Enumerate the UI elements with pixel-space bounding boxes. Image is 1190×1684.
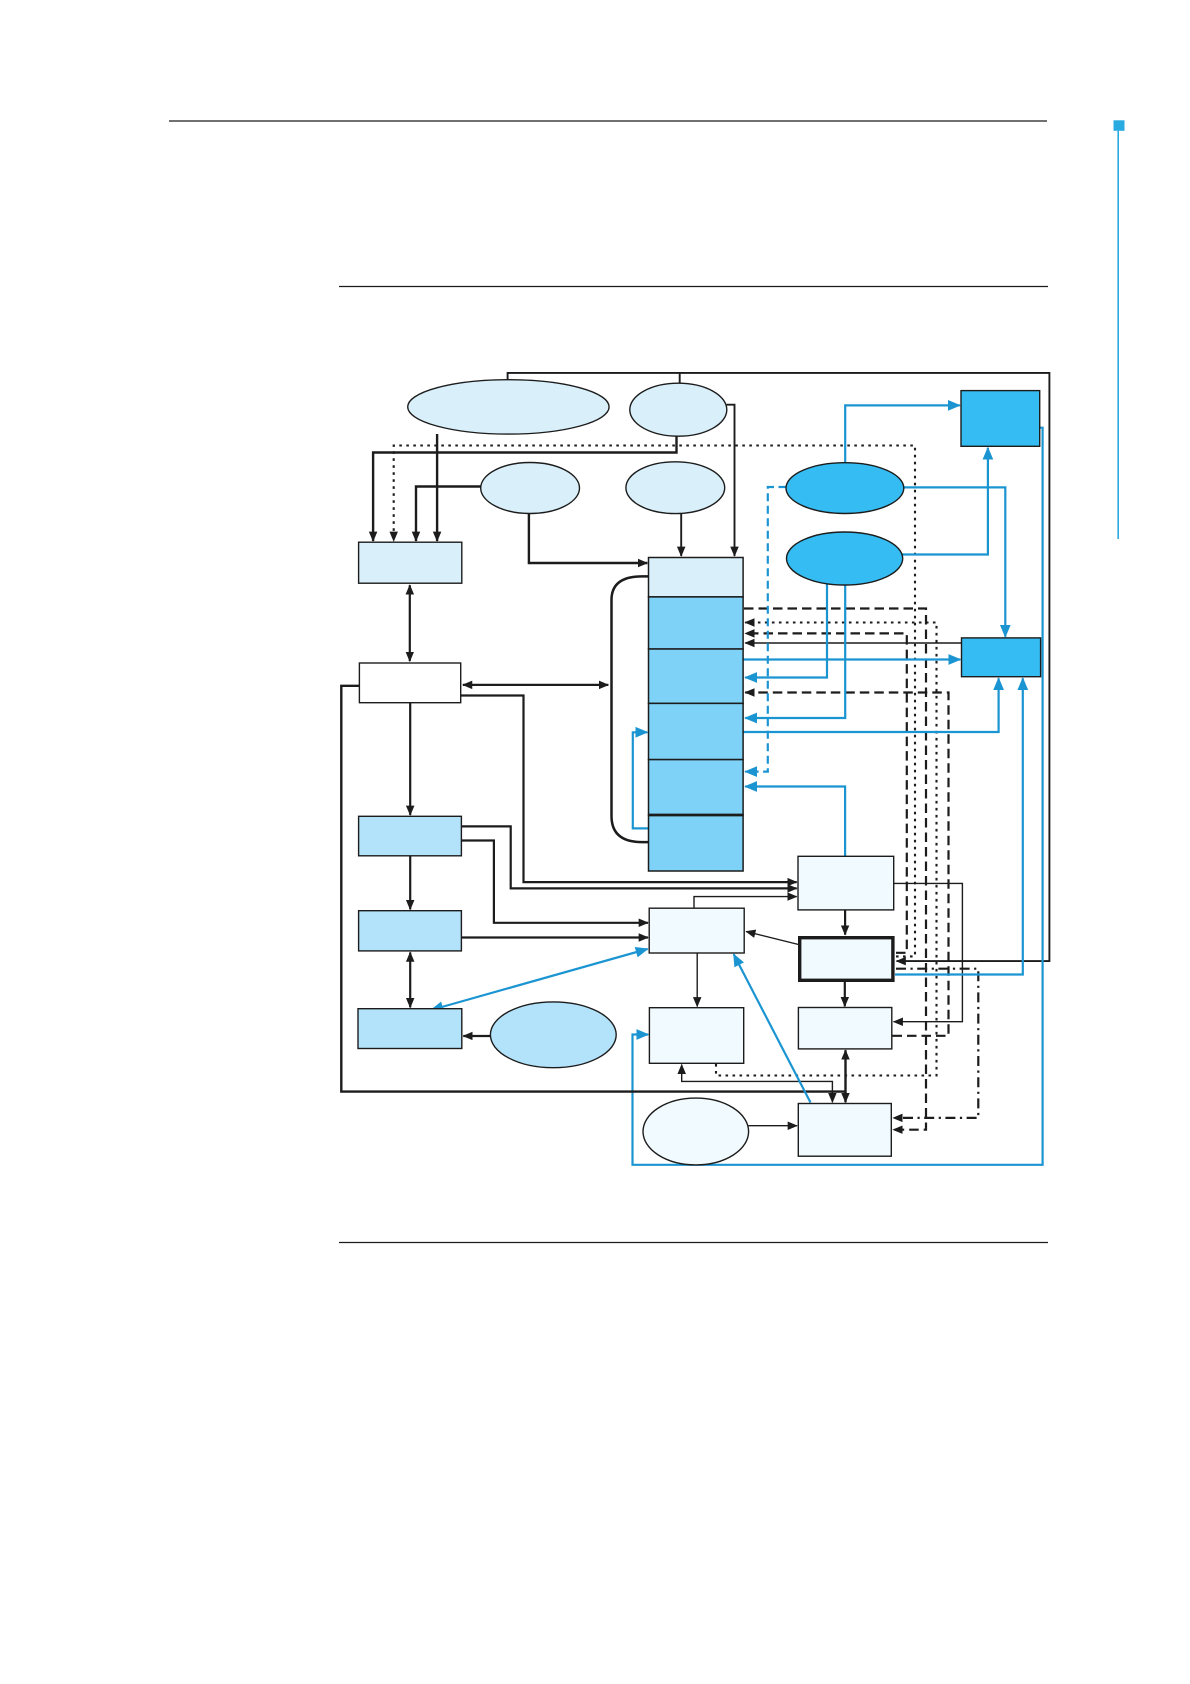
box R1: [798, 856, 894, 910]
wire: box R1 bottom to thick box T: [844, 910, 846, 935]
box B5: [358, 1009, 462, 1049]
wire: blue from column S4 to blue box BR2 bottom: [743, 678, 999, 732]
wire: box B3 right to box R1: [461, 826, 796, 888]
wire: blue from dark ellipse D1 right to blue box BR2 top: [903, 487, 1005, 636]
wire: box M bottom to box N: [696, 953, 698, 1006]
wire: ellipse E3 left to box B1: [416, 487, 481, 542]
ellipse E2: [630, 383, 727, 436]
wire: blue from column S3 to blue box BR2 left: [743, 658, 960, 660]
wire: stub border to ellipse E2 top: [679, 373, 681, 384]
wire: double arrow box B2 and recurrence curve: [463, 684, 608, 686]
wire: blue loop column S6 to column S4: [633, 732, 649, 828]
wire: ellipse E4 bottom to column top: [680, 513, 682, 556]
ellipse E5: [490, 1002, 616, 1068]
wire: outer border from ellipse E1/E2 tops to thick box T: [508, 373, 1050, 961]
wire: thin double link box N and box R3: [682, 1065, 833, 1103]
wire: solid thin from box R1 to box R2: [894, 883, 963, 1021]
wire: blue from box R1 top to column S5: [745, 787, 845, 857]
box B1: [359, 542, 462, 583]
wire: double arrow box R2 and box R3: [844, 1050, 846, 1102]
wire: blue dashed from dark ellipse D1 left to column S5: [745, 487, 786, 772]
central column stack: [649, 558, 744, 872]
wire: box B2 left long route to box R3 top: [341, 686, 845, 1092]
wire: double arrow box B4 and box B5: [409, 952, 411, 1007]
blue box BR2: [962, 638, 1041, 677]
blue corner square top right: [1114, 120, 1125, 131]
wire: dashed from box R2 to column S3: [745, 693, 948, 1036]
wire: ellipse E5 to box B5: [463, 1035, 491, 1037]
ellipse E4: [626, 462, 725, 514]
ellipse E3: [481, 463, 580, 514]
wire: box B2 right to box R1: [461, 696, 797, 883]
bottom rule: [339, 1242, 1048, 1244]
thick box T: [800, 938, 893, 981]
box M: [649, 908, 744, 953]
wire: blue from dark ellipse D1 top to blue box BR1: [845, 405, 960, 462]
wire: double arrow box B1 and box B2: [409, 585, 411, 661]
wire: thick box T corner to box M right: [746, 932, 798, 945]
blue box BR1: [961, 391, 1040, 447]
wire: ellipse E2 right to column top: [727, 405, 735, 556]
wire: dash-dot from thick box T to box R3: [893, 969, 978, 1118]
wire: blue from thick box T to blue box BR2 bottom: [895, 678, 1023, 974]
wire: solid from blue box BR2 left to column S2: [745, 642, 961, 644]
dark ellipse D2: [787, 532, 903, 585]
wire: ellipse E3 bottom to column S1 left: [529, 513, 647, 563]
wire: dotted from box N to column S2: [716, 623, 937, 1076]
wire: ellipse E2 bottom left to box B1: [373, 436, 676, 541]
wire: box B3 right to box M: [461, 841, 648, 923]
box R2: [798, 1008, 891, 1049]
dark ellipse D1: [786, 463, 904, 514]
box R3: [798, 1104, 891, 1157]
wire: dashed from column S2 to box R3: [744, 609, 926, 1130]
box B2: [359, 663, 460, 703]
wire: blue highway from blue box BR1 right to box N: [633, 428, 1043, 1165]
box B3: [359, 816, 462, 856]
second rule: [339, 286, 1048, 288]
box N: [649, 1008, 743, 1064]
wire: blue diagonal box R3 top to box M bottom: [734, 954, 811, 1102]
blue vertical margin line: [1117, 131, 1119, 539]
wire: dashed from thick box T to column S2: [745, 633, 907, 952]
ellipse E1: [408, 380, 609, 434]
wire: box B4 right to box M: [461, 936, 648, 938]
wire: dotted bus from thick box T to box B1: [394, 446, 915, 957]
wire: blue from dark ellipse D2 bottom to column S3: [745, 584, 827, 678]
wire: big recurrence curve on column left: [612, 576, 649, 842]
ellipse E6: [643, 1098, 749, 1165]
wire: ellipse E1 bottom to box B1: [436, 434, 438, 541]
wire: blue from dark ellipse D2 bottom to column S4: [745, 584, 845, 718]
wire: thick box T bottom to box R2: [844, 982, 846, 1006]
wire: box B3 to box B4: [409, 856, 411, 910]
box B4: [359, 911, 462, 951]
wire: blue diagonal double arrow box B5 and box M: [431, 949, 647, 1010]
wire: blue from dark ellipse D2 right to blue box BR1 bottom: [902, 448, 988, 555]
wire: box B2 to box B3: [409, 703, 411, 815]
wire: ellipse E6 to box R3 left: [749, 1125, 798, 1127]
wire: box M top to box R1: [694, 897, 797, 908]
top rule: [169, 120, 1047, 122]
